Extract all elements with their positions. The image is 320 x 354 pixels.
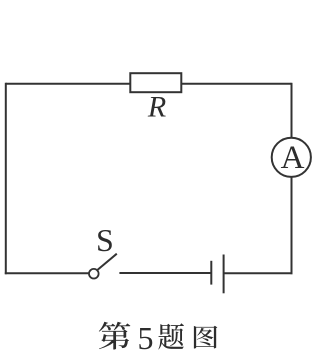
svg-text:5: 5 [138, 320, 154, 354]
svg-text:R: R [147, 90, 166, 123]
switch S lever [97, 254, 117, 270]
resistor R1 [130, 73, 181, 92]
caption character 题 [158, 323, 184, 349]
caption character 第 [99, 322, 131, 350]
battery BT1 positive plate [223, 255, 225, 294]
wire top-right segment [181, 83, 291, 85]
wire bottom-left segment [5, 272, 89, 274]
svg-text:S: S [96, 222, 114, 258]
svg-text:A: A [281, 140, 305, 176]
wire bottom-middle segment [119, 272, 211, 274]
wire top-left segment [6, 83, 131, 85]
wire left side [5, 83, 7, 274]
wire right upper [291, 83, 293, 138]
ammeter A1 [272, 138, 311, 177]
wire bottom-right segment [224, 272, 293, 274]
wire right lower [291, 177, 293, 274]
switch S contact circle [89, 269, 99, 279]
caption character 图 [194, 326, 218, 349]
battery BT1 negative plate [210, 261, 212, 285]
